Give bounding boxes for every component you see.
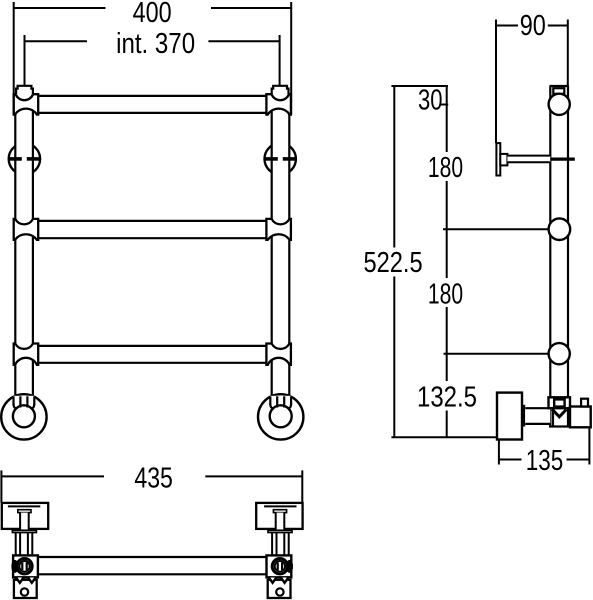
svg-text:int. 370: int. 370 <box>116 28 195 60</box>
plate stem right <box>276 513 285 531</box>
extension line int370 left <box>24 35 26 86</box>
rail end circle 1 (side) <box>549 94 570 115</box>
svg-text:435: 435 <box>134 463 173 495</box>
dimension 90 <box>496 25 518 27</box>
svg-text:180: 180 <box>428 152 463 184</box>
reference tick top <box>391 85 448 87</box>
joint fitting top-right <box>266 94 291 114</box>
extension line 90 right <box>567 20 569 87</box>
extension line int370 right <box>279 35 281 86</box>
spring clips right <box>281 578 289 583</box>
valve knob ring left <box>19 561 29 571</box>
extension line 90 left <box>495 20 497 144</box>
valve crescent right <box>286 560 293 573</box>
valve knob ring right <box>275 561 285 571</box>
valve flange on tube <box>549 397 571 408</box>
right vertical tube <box>272 94 290 397</box>
joint fitting middle-left <box>14 219 39 240</box>
wall plate (side view) <box>496 143 500 175</box>
plate recess line left <box>8 505 40 507</box>
top horizontal rail <box>38 96 266 113</box>
extension line 435 left <box>0 470 2 503</box>
wall-mount tick marks right <box>265 157 278 161</box>
joint fitting middle-right <box>266 219 291 240</box>
bracket tick through tube <box>550 158 575 161</box>
plate boss right <box>273 510 286 513</box>
wall bracket arm <box>507 156 550 163</box>
caster wheel right <box>258 394 303 439</box>
plate recess line right <box>264 505 296 507</box>
extension line 135 left <box>498 440 500 465</box>
wall bracket flange <box>500 154 507 166</box>
shaft lines right <box>288 532 290 555</box>
plan bracket plate right <box>256 503 302 529</box>
wall-mount tick marks left <box>9 157 22 161</box>
extension line 435 right <box>301 470 303 503</box>
valve pipe <box>525 408 550 424</box>
left vertical tube <box>15 94 33 397</box>
dimension 400 <box>14 7 106 9</box>
tick at 30 <box>441 104 448 106</box>
joint fitting bottom-right <box>266 344 291 365</box>
plan bracket plate left <box>2 503 48 529</box>
tube top edge <box>550 85 569 87</box>
svg-text:90: 90 <box>520 10 546 42</box>
svg-text:132.5: 132.5 <box>417 381 477 413</box>
bottom horizontal rail <box>38 346 266 363</box>
tick to circle 3 <box>444 353 549 355</box>
plan valve block right <box>267 555 292 577</box>
extension line 400 left <box>13 2 15 115</box>
side view vertical tube <box>550 86 568 427</box>
bottom plate left <box>14 580 37 598</box>
flange bar right <box>268 530 292 532</box>
bottom plate right <box>268 580 291 598</box>
dimension line 522.5 <box>393 86 395 248</box>
plate hole right <box>276 588 283 595</box>
valve right unit <box>570 407 591 428</box>
crescent redraw left <box>11 560 18 573</box>
svg-text:522.5: 522.5 <box>364 247 423 279</box>
tube top cap (side) <box>553 88 564 94</box>
wall-mount ring left (front view) <box>9 143 40 174</box>
joint fitting bottom-left <box>14 344 39 365</box>
middle horizontal rail <box>38 221 266 238</box>
valve knob outer left <box>17 559 32 574</box>
dimension 435 <box>1 475 104 477</box>
dimension int. 370 <box>25 40 88 42</box>
valve V mark <box>552 410 566 417</box>
svg-text:180: 180 <box>428 278 463 310</box>
svg-text:135: 135 <box>526 445 564 477</box>
crescent redraw right <box>286 560 293 573</box>
valve right unit cap <box>581 399 588 407</box>
rail end circle 2 (side) <box>549 218 571 240</box>
segment dimension line 30/180/180/132.5 <box>446 86 448 152</box>
plate boss left <box>18 510 31 513</box>
valve knob outer right <box>272 559 287 574</box>
svg-text:400: 400 <box>133 0 172 29</box>
caster wheel left <box>1 394 46 439</box>
valve flange inner square <box>554 399 564 406</box>
knob slot right <box>278 562 283 570</box>
extension line 400 right <box>290 2 292 115</box>
plate hole left <box>21 588 28 595</box>
plate stem left <box>20 513 29 531</box>
svg-text:30: 30 <box>418 85 443 117</box>
plan valve block left <box>13 555 38 577</box>
joint fitting top-left <box>14 94 39 114</box>
valve box (side view) <box>497 393 522 440</box>
valve body left line <box>552 408 554 426</box>
flange bar left <box>12 530 36 532</box>
wall-mount ring right (front view) <box>265 143 296 174</box>
extension line 135 right <box>588 427 590 464</box>
valve connector <box>522 405 525 427</box>
valve body bottom <box>549 425 570 427</box>
dimension 135 <box>499 459 522 461</box>
valve crescent left <box>11 560 18 573</box>
reference tick bottom <box>391 436 497 438</box>
shaft lines left <box>15 532 17 555</box>
spring clips left <box>16 578 24 583</box>
plan rail bar <box>38 557 267 574</box>
knob slot left <box>22 562 27 570</box>
tick to circle 2 <box>443 228 549 230</box>
rail end circle 3 (side) <box>549 343 570 364</box>
